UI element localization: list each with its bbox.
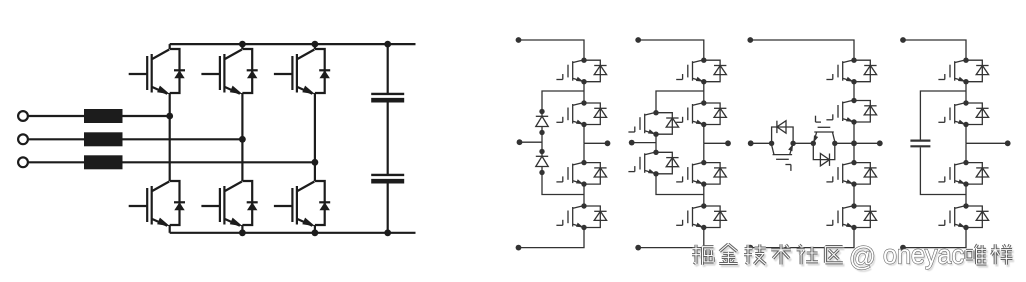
wire: flying-cap branch lower (920, 147, 966, 194)
transistor FC.T4 IGBT with diode (938, 203, 988, 230)
transistor T6 (lower clamp IGBT) with diode (628, 150, 678, 177)
wire: ANPC T1-T2 link (703, 82, 705, 103)
wire: TT output lead (854, 142, 880, 144)
node: phase B junction (239, 136, 246, 143)
wire: phase B to bridge (123, 138, 243, 140)
transistor TT.T1 IGBT with diode (826, 58, 876, 85)
wire: FC output to T3 (965, 143, 967, 162)
wire: DC- bottom rail (170, 232, 416, 234)
wire: ANPC output to T3 (703, 143, 705, 162)
wire: ANPC neutral lead (632, 142, 656, 144)
wire: leg 1 upper collector stub (169, 44, 171, 49)
terminal: AC input phase B (18, 134, 28, 144)
terminal: FC AC output node (1005, 140, 1011, 146)
wire: T-type neutral lead (751, 142, 772, 144)
wire: phase C to bridge (123, 161, 315, 163)
terminal: TT DC+ node (747, 37, 753, 43)
wire: leg 2 lower segment (241, 139, 243, 181)
transistor NPC.T3 IGBT with diode (556, 160, 606, 187)
terminal: TT DC- node (747, 245, 753, 251)
wire: leg 2 upper collector stub (241, 44, 243, 49)
transistor ANPC.T4 IGBT with diode (676, 203, 726, 230)
wire: DC link capacitor branch upper (387, 44, 389, 94)
transistor Q6 (bottom IGBT leg 3) with antiparallel diode (274, 181, 330, 226)
inductor L2 (line choke, phase B) (84, 132, 123, 146)
wire: DC+ top rail (170, 43, 416, 45)
wire: phase B input lead (28, 138, 84, 140)
wire: NPC clamp branch upper (542, 91, 584, 112)
wire: leg 1 midpoint segment (169, 93, 171, 116)
wire: ANPC T2 to output node (703, 125, 705, 144)
capacitor C3 (flying capacitor) (910, 141, 930, 147)
wire: T5-T6 common emitter link (793, 142, 813, 144)
wire: leg 3 lower segment (314, 162, 316, 181)
terminal: NPC DC+ node (516, 37, 522, 43)
diode D5 (upper clamp) (536, 109, 548, 135)
wire: ANPC clamp mid link (655, 134, 657, 152)
wire: DC link capacitor branch lower (387, 181, 389, 233)
wire: leg 2 emitter stub to DC- (241, 225, 243, 233)
wire: flying-cap branch upper (920, 91, 966, 140)
transistor FC.T3 IGBT with diode (938, 160, 988, 187)
svg-text:@: @ (849, 242, 876, 272)
transistor FC.T1 IGBT with diode (938, 58, 988, 85)
wire: TT top lead (750, 40, 854, 60)
terminal: TT AC output node (877, 140, 883, 146)
wire: FC T1-T2 link (965, 82, 967, 103)
node: bottom rail capacitor junction (384, 229, 391, 236)
wire: ANPC bottom lead (638, 228, 704, 248)
wire: FC bottom lead (903, 228, 966, 248)
watermark text group (692, 239, 1014, 274)
wire: phase A input lead (28, 115, 84, 117)
wire: TT T2 to output node (853, 122, 855, 143)
svg-text:oneyac: oneyac (883, 239, 964, 269)
terminal: T-type neutral point (748, 140, 754, 146)
wire: leg 3 upper collector stub (314, 44, 316, 49)
wire: ANPC clamp branch lower (656, 174, 704, 195)
terminal: ANPC DC+ node (635, 37, 641, 43)
wire: NPC T3-T4 link (583, 184, 585, 206)
inductor L3 (line choke, phase C) (84, 155, 123, 169)
transistor T5 (upper clamp IGBT) with diode (628, 110, 678, 137)
wire: ANPC top lead (638, 40, 704, 60)
terminal: ANPC AC output node (725, 140, 731, 146)
wire: NPC output to T3 (583, 143, 585, 162)
node: top rail leg3 junction (312, 41, 319, 48)
capacitor C1 (upper DC-link) (371, 94, 404, 100)
transistor NPC.T2 IGBT with diode (556, 100, 606, 127)
node: phase C junction (312, 159, 319, 166)
wire: ANPC T3-T4 link (703, 184, 705, 206)
wire: phase A to bridge (123, 115, 170, 117)
wire: leg 2 midpoint segment (241, 93, 243, 139)
capacitor C2 (lower DC-link) (371, 175, 404, 181)
transistor TT.T2 IGBT with diode (826, 98, 876, 125)
terminal: FC DC- node (900, 245, 906, 251)
wire: TT T1-T2 link (853, 82, 855, 101)
diode D6 (lower clamp) (536, 149, 548, 175)
transistor Q4 (bottom IGBT leg 1) with antiparallel diode (129, 181, 185, 226)
wire: NPC neutral lead (520, 141, 543, 143)
wire: ANPC output lead (704, 142, 728, 144)
node: T-type midpoint junction (851, 140, 857, 146)
wire: TT T3-T4 link (853, 184, 855, 206)
wire: NPC clamp branch lower (542, 173, 584, 195)
inductor L1 (line choke, phase A) (84, 109, 123, 123)
wire: T6 to midpoint (835, 142, 854, 144)
wire: clamp branch mid upper (541, 133, 543, 152)
wire: FC T2 to output node (965, 125, 967, 144)
wire: capacitor midpoint segment (387, 100, 389, 175)
wire: ANPC clamp branch upper (656, 91, 704, 113)
transistor ANPC.T2 IGBT with diode (676, 100, 726, 127)
wire: phase C input lead (28, 161, 84, 163)
wire: leg 1 emitter stub to DC- (169, 225, 171, 233)
wire: NPC output lead (584, 142, 608, 144)
node: phase A junction (166, 113, 173, 120)
node: bottom rail leg2 junction (239, 229, 246, 236)
wire: FC T3-T4 link (965, 184, 967, 206)
wire: FC output lead (966, 142, 1008, 144)
transistor TT.T3 IGBT with diode (826, 160, 876, 187)
transistor T5 (horizontal IGBT, diode above) (769, 121, 796, 171)
terminal: ANPC neutral point (629, 140, 635, 146)
transistor Q1 (top IGBT leg 1) with antiparallel diode (129, 49, 185, 94)
node: bottom rail leg3 junction (312, 229, 319, 236)
wire: NPC bottom lead (519, 228, 585, 248)
terminal: ANPC DC- node (635, 245, 641, 251)
transistor ANPC.T1 IGBT with diode (676, 58, 726, 85)
transistor T6 (horizontal IGBT, diode below) (811, 116, 838, 166)
terminal: NPC DC- node (516, 245, 522, 251)
transistor NPC.T1 IGBT with diode (556, 58, 606, 85)
transistor Q5 (bottom IGBT leg 2) with antiparallel diode (201, 181, 257, 226)
terminal: NPC AC output node (605, 140, 611, 146)
wire: leg 3 emitter stub to DC- (314, 225, 316, 233)
terminal: AC input phase C (18, 157, 28, 167)
wire: leg 1 lower segment (169, 116, 171, 181)
transistor Q3 (top IGBT leg 3) with antiparallel diode (274, 49, 330, 94)
node: top rail leg2 junction (239, 41, 246, 48)
transistor FC.T2 IGBT with diode (938, 100, 988, 127)
terminal: FC DC+ node (900, 37, 906, 43)
wire: NPC T2 to output node (583, 125, 585, 144)
transistor Q2 (top IGBT leg 2) with antiparallel diode (201, 49, 257, 94)
transistor NPC.T4 IGBT with diode (556, 203, 606, 230)
terminal: NPC neutral point (517, 139, 523, 145)
node: top rail capacitor junction (384, 41, 391, 48)
wire: leg 3 midpoint segment (314, 93, 316, 162)
transistor ANPC.T3 IGBT with diode (676, 160, 726, 187)
transistor TT.T4 IGBT with diode (826, 203, 876, 230)
wire: TT output to T3 (853, 143, 855, 162)
wire: FC top lead (903, 40, 966, 60)
wire: NPC T1-T2 link (583, 82, 585, 103)
terminal: AC input phase A (18, 111, 28, 121)
wire: TT bottom lead (750, 228, 854, 248)
wire: NPC top lead (519, 40, 585, 60)
